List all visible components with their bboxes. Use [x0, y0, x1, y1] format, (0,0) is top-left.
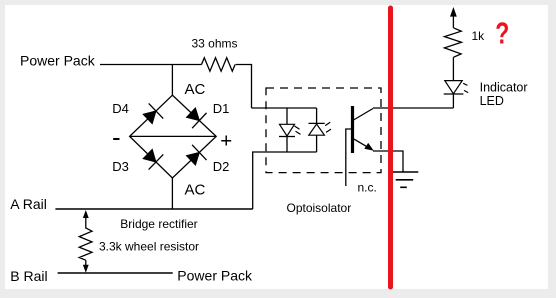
svg-text:33 ohms: 33 ohms [192, 37, 238, 51]
svg-text:B Rail: B Rail [10, 268, 47, 284]
supply arrow (up) [450, 7, 457, 28]
label Power Pack (bottom) [177, 267, 253, 283]
wire: optoisolator LED top rail [252, 107, 317, 109]
label D1 [213, 101, 230, 116]
indicator LED D5 [444, 81, 469, 94]
diode D3 [140, 146, 163, 169]
wire: bridge top lead [171, 65, 173, 96]
svg-text:+: + [220, 129, 232, 152]
ground [392, 172, 418, 187]
wire: emitter to ground [373, 151, 403, 172]
svg-text:AC: AC [185, 182, 206, 199]
svg-text:Power Pack: Power Pack [20, 53, 96, 69]
svg-text:D4: D4 [112, 101, 129, 116]
svg-text:Power Pack: Power Pack [177, 267, 253, 283]
bridge rectifier diamond [130, 95, 217, 178]
resistor R2 1k [444, 28, 461, 58]
label AC (top) [185, 81, 206, 98]
label D2 [213, 159, 230, 174]
label 1k [472, 29, 486, 43]
wire: indicator LED to collector wire [452, 94, 454, 108]
label Optoisolator [287, 201, 352, 215]
phototransistor Q1 base bar [351, 106, 354, 153]
phototransistor base lead (n.c.) [346, 129, 352, 186]
wire: Power Pack to 33 ohm resistor [100, 64, 202, 66]
svg-text:Bridge rectifier: Bridge rectifier [120, 217, 197, 231]
wire: collector to indicator LED [373, 107, 453, 109]
label LED [480, 94, 504, 108]
diode D2 [184, 145, 207, 168]
label Indicator [480, 80, 528, 94]
resistor R1 33 ohms [202, 58, 236, 72]
opto LED 2 (right, cathode up) [309, 108, 332, 152]
svg-text:D1: D1 [213, 101, 230, 116]
label plus [220, 129, 232, 152]
wire: B Rail [58, 272, 173, 274]
label D4 [112, 101, 129, 116]
diode D4 [140, 103, 163, 126]
svg-text:?: ? [495, 15, 509, 50]
svg-text:LED: LED [480, 94, 504, 108]
wire: A Rail up to optoisolator bottom rail [253, 152, 317, 209]
svg-text:AC: AC [185, 81, 206, 98]
label A Rail [10, 196, 47, 212]
svg-text:A Rail: A Rail [10, 196, 47, 212]
svg-text:Indicator: Indicator [480, 80, 528, 94]
red barrier line [388, 8, 393, 287]
svg-text:D3: D3 [112, 159, 129, 174]
opto LED 1 (left, cathode down) [279, 108, 301, 152]
svg-text:3.3k wheel resistor: 3.3k wheel resistor [99, 239, 199, 253]
label 33 ohms [192, 37, 238, 51]
wire: bridge bottom lead [171, 178, 173, 209]
phototransistor emitter lead with arrow [354, 139, 374, 151]
label D3 [112, 159, 129, 174]
wire: resistor to optoisolator top rail corner [236, 65, 252, 109]
resistor R3 3.3k wheel resistor with arrows [79, 210, 92, 273]
label n.c. [358, 181, 377, 195]
diode D1 [184, 105, 207, 128]
label AC (bottom) [185, 182, 206, 199]
label Power Pack (top) [20, 53, 96, 69]
phototransistor collector lead [354, 109, 374, 121]
label red question mark [495, 15, 509, 50]
wire: 1k to indicator LED [452, 57, 454, 80]
label minus [112, 122, 121, 152]
svg-text:1k: 1k [472, 29, 486, 43]
optoisolator dashed box [266, 88, 381, 173]
label B Rail [10, 268, 47, 284]
svg-text:-: - [112, 122, 121, 152]
label 3.3k wheel resistor [99, 239, 199, 253]
wire: A Rail [55, 208, 252, 210]
svg-text:n.c.: n.c. [358, 181, 377, 195]
label Bridge rectifier [120, 217, 197, 231]
svg-text:Optoisolator: Optoisolator [287, 201, 352, 215]
svg-text:D2: D2 [213, 159, 230, 174]
